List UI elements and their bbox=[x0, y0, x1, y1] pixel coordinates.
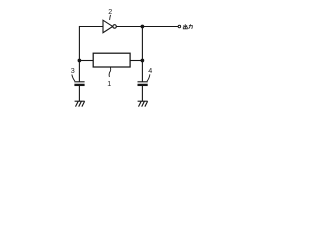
wire: box left lead bbox=[79, 60, 93, 62]
leader for label 3 bbox=[72, 75, 75, 82]
capacitor C4 top plate bbox=[138, 81, 148, 83]
node: right junction bbox=[141, 59, 145, 63]
wire: C3 to ground bbox=[78, 86, 80, 101]
inverter U2 triangle bbox=[103, 20, 113, 33]
ground (right) bbox=[138, 101, 148, 106]
capacitor C3 bottom plate bbox=[74, 84, 84, 86]
出 bbox=[184, 24, 186, 29]
leader for label 2 bbox=[109, 15, 112, 20]
力 bbox=[189, 26, 192, 29]
label 出力 (output) drawn as strokes bbox=[183, 24, 192, 29]
wire: left vertical to C3 bbox=[78, 61, 80, 82]
svg-text:1: 1 bbox=[107, 79, 111, 88]
node: left junction bbox=[78, 59, 82, 63]
leader for label 4 bbox=[147, 74, 150, 81]
capacitor C4 bottom plate bbox=[138, 84, 148, 86]
capacitor C3 top plate bbox=[74, 81, 84, 83]
crystal resonator 1 (box) bbox=[93, 53, 130, 67]
svg-text:2: 2 bbox=[108, 7, 112, 16]
wire: inverter input horizontal bbox=[79, 26, 103, 28]
wire: right vertical to C4 bbox=[141, 61, 143, 82]
wire: C4 to ground bbox=[141, 86, 143, 101]
inverter U2 bubble bbox=[113, 25, 117, 29]
leader for label 1 bbox=[109, 67, 111, 77]
svg-text:4: 4 bbox=[148, 66, 152, 75]
wire: inverter output to terminal bbox=[116, 26, 178, 28]
svg-text:3: 3 bbox=[71, 66, 75, 75]
node: output junction bbox=[141, 25, 145, 29]
terminal: output open circle bbox=[178, 25, 181, 28]
ground (left) bbox=[75, 101, 85, 106]
wire: box right lead bbox=[130, 60, 142, 62]
wire: right vertical (top) bbox=[141, 27, 143, 61]
wire: left feedback vertical (top) bbox=[78, 26, 80, 61]
